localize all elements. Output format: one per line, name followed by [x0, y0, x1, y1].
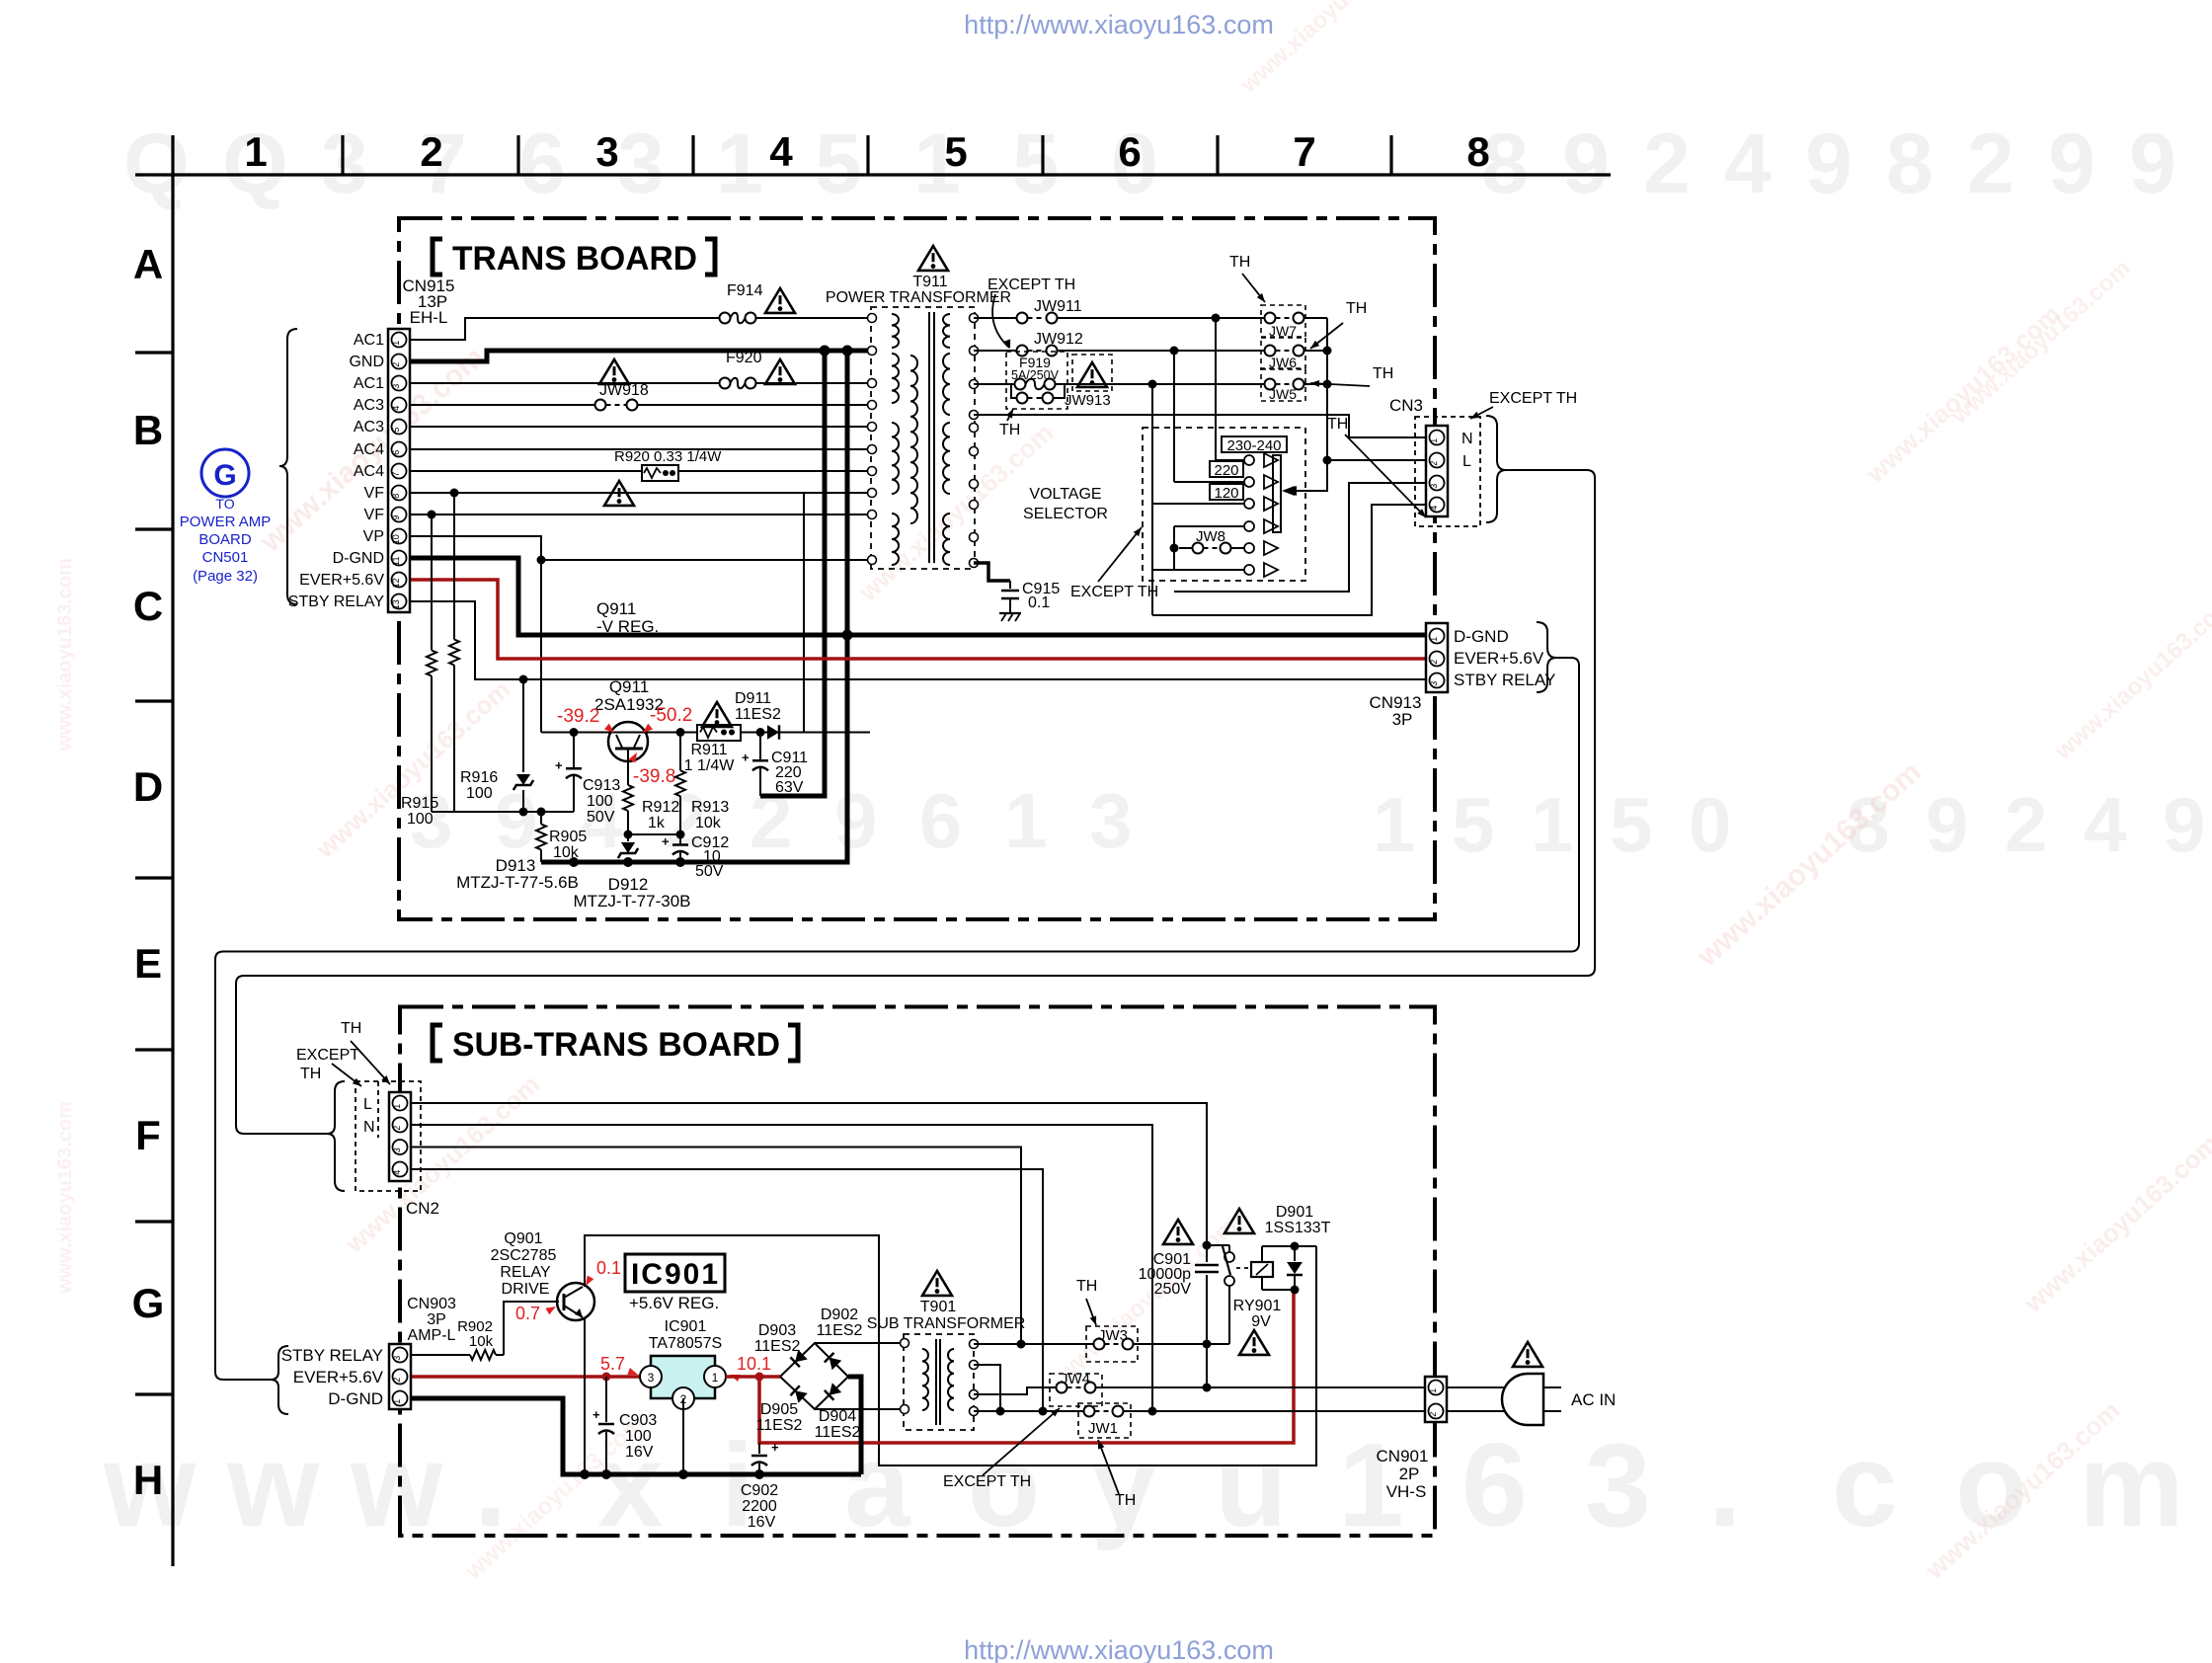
wire CN3 pin4 to selector — [1152, 505, 1425, 615]
relay coil RY901 — [1251, 1262, 1273, 1277]
jumper JW918 — [606, 404, 627, 406]
connector CN913 3P — [1426, 623, 1448, 692]
svg-text:-V REG.: -V REG. — [596, 617, 659, 636]
transformer T911 right terminals — [970, 314, 979, 323]
svg-text:CN2: CN2 — [406, 1199, 439, 1218]
warning triangle above R911 — [702, 702, 732, 727]
svg-text:100: 100 — [407, 811, 434, 828]
wire T901 tap to AC row — [974, 1365, 1000, 1411]
svg-text:+: + — [771, 1440, 779, 1455]
wire CN915 pin7 AC4 via R920 — [410, 470, 870, 472]
wire CN901 to plug — [1448, 1386, 1507, 1388]
svg-text:E: E — [134, 940, 162, 987]
wire Q901 collector loop to relay coil — [585, 1235, 1316, 1465]
capacitor C901 10000p 250V — [1206, 1245, 1208, 1262]
jumper JW5 with dashed box — [1261, 369, 1305, 401]
wire relay coil bottom — [1262, 1289, 1295, 1291]
transformer T901 dashed box — [904, 1334, 974, 1430]
connector CN901 2P — [1425, 1377, 1447, 1422]
resistor R915 100 — [431, 515, 433, 651]
selector contact 220 — [1174, 481, 1243, 483]
svg-text:6: 6 — [518, 117, 566, 211]
svg-text:SELECTOR: SELECTOR — [1023, 506, 1108, 522]
resistor R902 10k — [462, 1354, 470, 1356]
wire JW912 tap vertical — [1173, 351, 1175, 482]
AC plug symbol — [1502, 1374, 1543, 1425]
svg-text:5A/250V: 5A/250V — [1011, 368, 1060, 382]
svg-text:2: 2 — [391, 362, 401, 367]
svg-text:A: A — [133, 241, 163, 287]
svg-text:MTZJ-T-77-30B: MTZJ-T-77-30B — [573, 892, 690, 911]
svg-text:+: + — [555, 757, 563, 772]
svg-text:7: 7 — [1293, 128, 1315, 175]
leader curve EXCEPT TH — [992, 294, 1009, 348]
svg-text:2: 2 — [420, 128, 442, 175]
wire F919 tap vertical — [1151, 384, 1153, 615]
svg-text:R905: R905 — [549, 829, 587, 845]
relay mech link dashed — [1236, 1267, 1250, 1269]
svg-text:C: C — [133, 583, 163, 629]
svg-text:1: 1 — [392, 1399, 402, 1404]
svg-text:TH: TH — [999, 422, 1020, 438]
svg-text:JW8: JW8 — [1196, 528, 1225, 545]
svg-text:VOLTAGE: VOLTAGE — [1029, 486, 1101, 503]
warning triangle F919 — [1077, 362, 1107, 387]
wire CN3 pin3 to selector — [1174, 483, 1425, 592]
wire secondary bottom to C915 — [974, 563, 1010, 581]
wire IC901 gnd pin2 — [682, 1398, 684, 1474]
svg-text:C902: C902 — [741, 1482, 778, 1499]
border row ticks — [135, 351, 173, 354]
svg-text:T911: T911 — [912, 274, 947, 290]
selector bar arrow — [1291, 490, 1327, 492]
TRANS BOARD title — [433, 239, 442, 275]
svg-text:4: 4 — [1724, 117, 1772, 211]
svg-text:www.xiaoyu163.com: www.xiaoyu163.com — [54, 1101, 76, 1295]
svg-text:10k: 10k — [695, 815, 722, 831]
svg-text:TH: TH — [300, 1066, 321, 1082]
jumper JW913 parallel — [1011, 384, 1017, 398]
svg-text:AC3: AC3 — [354, 419, 384, 436]
svg-text:4: 4 — [2084, 781, 2126, 868]
svg-text:0.1: 0.1 — [1028, 594, 1050, 611]
svg-text:JW6: JW6 — [1269, 355, 1297, 370]
svg-text:9: 9 — [495, 777, 537, 864]
svg-text:2: 2 — [392, 1378, 402, 1383]
transformer T911 dashed box — [871, 307, 975, 569]
jumper JW3 — [1086, 1326, 1138, 1362]
svg-text:CN901: CN901 — [1377, 1447, 1429, 1465]
wire CN915 pin11 D-GND thick — [410, 558, 1425, 635]
IC901 pin1 — [704, 1366, 726, 1387]
svg-text:VH-S: VH-S — [1386, 1482, 1427, 1501]
svg-text:2P: 2P — [1399, 1465, 1420, 1483]
svg-text:2: 2 — [1429, 461, 1439, 466]
selector contact 230-240 — [1244, 455, 1254, 465]
svg-text:4: 4 — [769, 128, 793, 175]
warning triangle near F914 — [765, 288, 795, 313]
zener D912 — [627, 834, 629, 841]
svg-text:Q901: Q901 — [504, 1230, 542, 1247]
wire secondary JW912 row — [974, 350, 1017, 352]
svg-text:D-GND: D-GND — [1454, 627, 1509, 646]
svg-text:TRANS BOARD: TRANS BOARD — [452, 240, 697, 277]
wire secondary JW911 row — [974, 317, 1017, 319]
zener D913 — [522, 679, 524, 772]
svg-text:Q911: Q911 — [609, 677, 649, 696]
transformer T901 coils — [922, 1349, 928, 1410]
svg-text:1: 1 — [244, 128, 267, 175]
warning triangle above T901 — [922, 1271, 952, 1296]
svg-text:VP: VP — [363, 528, 384, 545]
svg-text:JW5: JW5 — [1269, 386, 1297, 402]
connector CN915 13P — [388, 329, 410, 612]
svg-text:1: 1 — [1004, 777, 1047, 864]
svg-text:R911: R911 — [690, 742, 727, 758]
svg-text:5.7: 5.7 — [600, 1354, 625, 1374]
svg-text:3: 3 — [1429, 681, 1439, 686]
svg-text:C913: C913 — [583, 777, 620, 794]
transformer T911 left terminals — [868, 314, 877, 323]
svg-text:3: 3 — [321, 117, 368, 211]
svg-text:11: 11 — [391, 557, 401, 566]
capacitor C903 100 16V — [605, 1377, 607, 1422]
svg-text:1: 1 — [392, 1104, 402, 1109]
svg-text:8: 8 — [1886, 117, 1934, 211]
svg-text:AC IN: AC IN — [1571, 1390, 1616, 1409]
wire IC901 out red to bridge — [726, 1375, 780, 1379]
svg-text:3: 3 — [648, 1371, 655, 1385]
svg-text:BOARD: BOARD — [198, 531, 252, 548]
ruler column ticks — [341, 135, 344, 175]
wire JW7 to selector arrow vertical — [1296, 318, 1327, 491]
svg-text:G: G — [132, 1280, 165, 1326]
svg-text:TH: TH — [1115, 1492, 1136, 1509]
wire CN915 pin2 GND thick rail — [410, 351, 870, 361]
wire relay rail left — [1207, 1244, 1229, 1246]
warning triangle right of F920 — [765, 359, 795, 384]
svg-text:0: 0 — [1689, 781, 1731, 868]
svg-text:R916: R916 — [460, 769, 498, 786]
svg-text:TH: TH — [1076, 1278, 1097, 1295]
svg-text:CN3: CN3 — [1389, 396, 1423, 415]
svg-text:220: 220 — [1214, 462, 1238, 479]
wire CN903 pin1 D-GND thick — [411, 1398, 861, 1474]
svg-text:w: w — [350, 1419, 443, 1551]
warning triangle above T911 — [918, 246, 948, 271]
wire CN903 pin2 EVER red to IC901 — [411, 1375, 641, 1379]
svg-text:2: 2 — [1429, 660, 1439, 665]
svg-text:-50.2: -50.2 — [650, 705, 692, 726]
svg-text:3: 3 — [1429, 484, 1439, 489]
svg-text:9: 9 — [1926, 781, 1968, 868]
svg-text:EVER+5.6V: EVER+5.6V — [1454, 649, 1544, 668]
resistor R905 10k — [540, 812, 542, 825]
svg-text:JW3: JW3 — [1098, 1327, 1128, 1344]
svg-text:H: H — [133, 1457, 163, 1503]
selector contact 4 — [1174, 525, 1243, 527]
fuse F919 5A/250V — [1015, 379, 1026, 390]
svg-text:13: 13 — [391, 599, 401, 609]
svg-text:100: 100 — [466, 785, 493, 802]
svg-text:100: 100 — [587, 793, 613, 810]
svg-text:11ES2: 11ES2 — [815, 1424, 861, 1441]
svg-text:L: L — [1462, 453, 1471, 470]
transformer T901 core — [935, 1339, 937, 1425]
warning triangle RY901 — [1239, 1330, 1269, 1355]
svg-text:2: 2 — [1967, 117, 2014, 211]
jumper JW8 row — [1179, 547, 1193, 549]
svg-text:100: 100 — [625, 1428, 652, 1445]
svg-text:y: y — [1091, 1419, 1157, 1551]
wire GND drop to C911 foot — [760, 351, 825, 796]
svg-text:1: 1 — [1531, 781, 1573, 868]
jumper JW4 — [1050, 1374, 1102, 1406]
svg-text:B: B — [133, 407, 163, 453]
svg-text:N: N — [1461, 431, 1473, 447]
svg-text:4: 4 — [392, 1170, 402, 1175]
svg-text:http://www.xiaoyu163.com: http://www.xiaoyu163.com — [964, 1635, 1274, 1663]
svg-text:AC4: AC4 — [354, 441, 384, 458]
svg-text:9V: 9V — [1251, 1313, 1271, 1330]
selector bar — [1273, 455, 1281, 532]
dashed box warning near F919 — [1072, 355, 1112, 391]
wire AC row to CN901 pin2 — [974, 1410, 1084, 1412]
svg-text:3: 3 — [392, 1148, 402, 1152]
connector CN903 3P AMP-L — [389, 1344, 411, 1409]
bridge diode D904 — [825, 1383, 841, 1399]
resistor R916 100 — [453, 493, 455, 640]
svg-text:IC901: IC901 — [631, 1258, 720, 1291]
svg-text:11ES2: 11ES2 — [754, 1338, 801, 1355]
wire CN2 pin4 to AC row — [411, 1169, 1043, 1411]
brace CN2 left — [327, 1081, 345, 1191]
svg-text:JW7: JW7 — [1269, 323, 1297, 339]
connector CN3 dashed box — [1415, 417, 1480, 526]
svg-text:9: 9 — [391, 515, 401, 520]
svg-text:1: 1 — [716, 117, 763, 211]
wire VF drop to D911 node — [803, 493, 805, 733]
ground rail dots — [580, 1469, 590, 1479]
jumper JW911 — [1028, 317, 1047, 319]
svg-text:5: 5 — [1452, 781, 1494, 868]
svg-text:16V: 16V — [625, 1444, 654, 1461]
svg-text:EXCEPT TH: EXCEPT TH — [943, 1473, 1031, 1490]
capacitor C902 2200 16V — [758, 1443, 760, 1454]
svg-text:TH: TH — [341, 1020, 361, 1037]
svg-text:63V: 63V — [775, 779, 804, 796]
svg-text:R913: R913 — [691, 799, 729, 816]
svg-text:9: 9 — [1805, 117, 1853, 211]
wire CN2 pin1 L to relay — [411, 1103, 1207, 1245]
jumper JW7 with dashed box — [1261, 305, 1305, 337]
svg-text:STBY RELAY: STBY RELAY — [281, 1346, 383, 1365]
warning triangle left of F920 — [599, 359, 629, 384]
svg-text:16V: 16V — [748, 1514, 776, 1531]
svg-text:TH: TH — [1373, 365, 1393, 382]
TRANS BOARD dashed border — [399, 218, 1435, 919]
svg-text:5: 5 — [815, 117, 862, 211]
wire CN915 pin4 AC3 via jumper JW918 — [410, 404, 595, 406]
svg-text:11ES2: 11ES2 — [817, 1322, 863, 1339]
capacitor C913 100 50V — [573, 733, 575, 769]
svg-text:2SC2785: 2SC2785 — [491, 1247, 557, 1264]
connector CN2 dashed box — [355, 1081, 421, 1191]
capacitor C915 0.1 — [1009, 581, 1011, 589]
wire R902 to Q901 base — [504, 1302, 559, 1355]
svg-text:JW4: JW4 — [1061, 1371, 1090, 1387]
transformer T911 primary coils — [892, 314, 899, 348]
selector bottom row — [1152, 569, 1244, 571]
resistor R912 1k — [627, 761, 629, 785]
voltage selector dashed box — [1143, 428, 1305, 581]
svg-text:11ES2: 11ES2 — [756, 1417, 803, 1434]
svg-text:VF: VF — [364, 485, 385, 502]
svg-text:1k: 1k — [648, 815, 666, 831]
svg-text:L: L — [363, 1096, 372, 1113]
svg-text:2: 2 — [1643, 117, 1691, 211]
svg-text:230-240: 230-240 — [1226, 437, 1281, 454]
svg-text:1: 1 — [1428, 1388, 1438, 1393]
svg-text:-39.2: -39.2 — [557, 706, 599, 727]
svg-text:(Page 32): (Page 32) — [193, 568, 258, 585]
svg-text:1: 1 — [391, 341, 401, 346]
svg-text:D904: D904 — [819, 1408, 856, 1425]
svg-text:EXCEPT: EXCEPT — [296, 1047, 359, 1064]
jumper JW912 — [1028, 350, 1047, 352]
svg-text:STBY RELAY: STBY RELAY — [288, 594, 385, 610]
svg-text:AC1: AC1 — [354, 332, 384, 349]
svg-text:6: 6 — [919, 777, 962, 864]
wire CN915 pin1 AC1 to fuse F914 to T911 — [410, 318, 720, 340]
svg-text:Q: Q — [123, 117, 190, 211]
svg-text:D: D — [133, 763, 163, 810]
capacitor C911 220 63V — [759, 733, 761, 761]
svg-text:JW1: JW1 — [1088, 1420, 1118, 1437]
svg-text:2200: 2200 — [742, 1498, 777, 1515]
svg-text:Q911: Q911 — [596, 599, 636, 618]
svg-text:RELAY: RELAY — [500, 1264, 551, 1281]
diode D901 1SS133T — [1294, 1246, 1296, 1261]
IC901 regulator body — [651, 1356, 715, 1398]
voltage 220 box — [1210, 461, 1243, 477]
svg-text:R915: R915 — [401, 795, 438, 812]
svg-text:AMP-L: AMP-L — [408, 1327, 456, 1344]
svg-text:-39.8: -39.8 — [633, 766, 675, 787]
svg-text:50V: 50V — [695, 863, 724, 880]
brace CN913 right — [1537, 622, 1556, 692]
svg-text:120: 120 — [1214, 485, 1238, 502]
svg-text:D911: D911 — [735, 690, 771, 707]
wire R912 R913 bus — [628, 833, 680, 835]
svg-text:N: N — [363, 1119, 375, 1136]
svg-text:www.xiaoyu163.com: www.xiaoyu163.com — [54, 558, 76, 752]
svg-text:VF: VF — [364, 507, 385, 523]
svg-text:2: 2 — [392, 1126, 402, 1131]
svg-text:TH: TH — [1346, 300, 1367, 317]
svg-text:0.1: 0.1 — [596, 1258, 621, 1278]
wire lower bus 822 — [432, 811, 574, 813]
svg-text:EXCEPT TH: EXCEPT TH — [1489, 390, 1577, 407]
svg-text:1: 1 — [1373, 781, 1415, 868]
svg-text:MTZJ-T-77-5.6B: MTZJ-T-77-5.6B — [456, 873, 579, 892]
brace CN3 right — [1486, 416, 1506, 522]
wire CN3 loop to CN2 — [236, 470, 1595, 1134]
svg-text:R920 0.33 1/4W: R920 0.33 1/4W — [614, 448, 722, 465]
svg-text:u: u — [1215, 1419, 1287, 1551]
wire T901 tap to JW4 row — [974, 1387, 1057, 1394]
svg-text:5: 5 — [1610, 781, 1652, 868]
svg-text:3: 3 — [392, 1356, 402, 1361]
svg-text:+: + — [592, 1407, 600, 1422]
svg-text:EXCEPT TH: EXCEPT TH — [987, 277, 1075, 293]
warning triangle switch — [1224, 1209, 1254, 1233]
svg-text:TO: TO — [215, 496, 234, 512]
SUB-TRANS BOARD title — [433, 1025, 442, 1061]
wire CN915 pin13 STBY RELAY — [410, 601, 1425, 679]
svg-text:D902: D902 — [821, 1307, 858, 1323]
svg-text:4: 4 — [391, 406, 401, 411]
transistor Q911 2SA1932 — [608, 722, 648, 761]
relay switch contacts — [1228, 1245, 1230, 1252]
brace for CN915 harness — [279, 329, 297, 604]
svg-text:0.7: 0.7 — [515, 1304, 540, 1323]
svg-text:5: 5 — [944, 128, 967, 175]
svg-text:AC4: AC4 — [354, 463, 384, 480]
svg-text:G: G — [213, 459, 236, 492]
svg-text:1: 1 — [1429, 637, 1439, 642]
svg-text:TH: TH — [1327, 416, 1348, 433]
svg-text:SUB TRANSFORMER: SUB TRANSFORMER — [867, 1315, 1026, 1332]
wire CN915 pin8 VF — [410, 492, 870, 494]
svg-text:+5.6V REG.: +5.6V REG. — [629, 1294, 719, 1312]
svg-text:EVER+5.6V: EVER+5.6V — [299, 572, 384, 589]
svg-text:F: F — [135, 1112, 161, 1158]
wire T901 to JW3 row — [974, 1343, 1094, 1345]
wire CN915 pin9 VF — [410, 514, 870, 515]
dashed box around F919 JW913 — [1006, 352, 1067, 409]
selector contact 120 — [1152, 503, 1243, 505]
svg-text:F914: F914 — [727, 282, 763, 299]
warning triangle C901 — [1163, 1220, 1193, 1244]
svg-text:.: . — [1708, 1419, 1741, 1551]
svg-text:11ES2: 11ES2 — [735, 706, 781, 723]
svg-text:6: 6 — [1118, 128, 1141, 175]
wire secondary to CN3 pin1 — [974, 415, 1425, 437]
svg-text:3P: 3P — [427, 1311, 446, 1328]
svg-text:JW918: JW918 — [599, 382, 649, 399]
IC901 pin3 — [640, 1366, 662, 1387]
wire CN2 pin3 to JW3 row — [411, 1148, 1021, 1345]
watermark pink left edge vertical — [54, 558, 76, 752]
transformer T911 core — [928, 312, 930, 563]
svg-text:3: 3 — [617, 117, 665, 211]
wire Q901 emitter to rail — [584, 1317, 586, 1474]
wire rail up to bridge minus — [848, 1377, 861, 1474]
border left vertical — [171, 135, 174, 1566]
svg-text:8: 8 — [391, 494, 401, 499]
wire VP tap to T911 — [541, 559, 870, 561]
resistor R913 10k — [679, 733, 681, 771]
transformer T911 secondary coils — [943, 314, 950, 348]
bridge rectifier diamond — [780, 1343, 848, 1409]
voltage 230-240 box — [1222, 436, 1287, 452]
red wire to relay — [759, 1290, 1294, 1443]
svg-text:5: 5 — [1012, 117, 1060, 211]
svg-text:JW911: JW911 — [1034, 298, 1082, 315]
svg-text:EH-L: EH-L — [410, 308, 448, 327]
svg-text:2: 2 — [2005, 781, 2047, 868]
